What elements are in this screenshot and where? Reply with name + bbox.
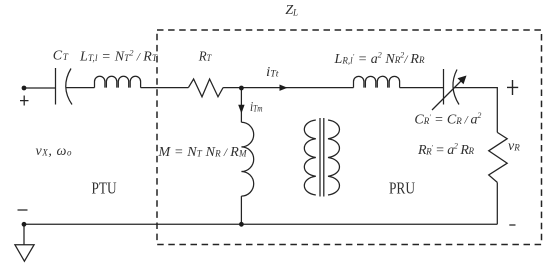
svg-text:PRU: PRU xyxy=(389,179,415,198)
svg-text:M = NT NR / RM: M = NT NR / RM xyxy=(158,145,248,160)
svg-text:RR′ = a2 RR: RR′ = a2 RR xyxy=(417,141,475,158)
svg-text:PTU: PTU xyxy=(92,179,117,198)
